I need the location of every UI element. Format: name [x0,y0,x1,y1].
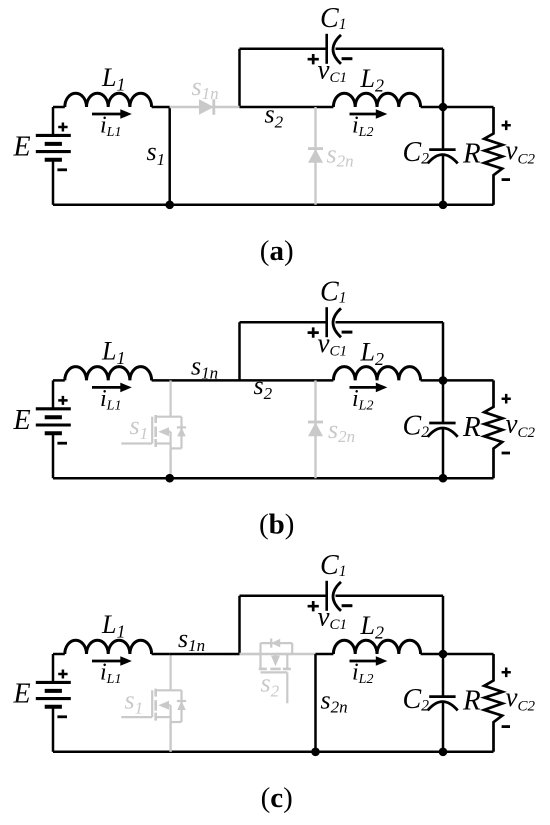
vC2 minus sign [502,452,510,455]
node junction dot output-top [439,650,448,659]
svg-text:s1: s1 [147,137,166,169]
resistor R [443,653,494,656]
circuit state (a) [13,3,536,267]
svg-text:s2: s2 [254,371,273,403]
wire C1 loop left vertical [238,322,241,380]
wire C1 top rail right [336,595,444,598]
svg-text:iL2: iL2 [352,660,373,688]
svg-text:C1: C1 [320,550,346,581]
svg-text:(c): (c) [261,782,293,814]
wire left rail bottom [52,433,55,478]
switch s2 (off, MOSFET horizontal) [240,653,316,655]
current arrow iL2 [350,386,380,389]
capacitor C2 [442,654,445,697]
node junction dot output-bottom [439,748,448,757]
wire s2n-top to L2 [316,653,334,656]
svg-text:L2: L2 [360,337,384,369]
node junction dot output-top [439,103,448,112]
svg-text:L2: L2 [360,611,384,643]
vC2 plus sign [502,121,511,131]
svg-text:L1: L1 [101,336,125,368]
C1 minus sign [342,604,353,607]
node junction dot output-bottom [439,474,448,483]
inductor L1 [53,106,65,109]
svg-text:C1: C1 [320,276,346,307]
wire bottom rail [53,477,494,480]
C1 plus sign [308,54,319,64]
battery plus sign [58,670,67,679]
capacitor C1 [325,34,328,64]
current arrow iL1 [92,660,123,663]
svg-text:L1: L1 [101,610,125,642]
wire left rail bottom [52,707,55,752]
svg-text:(a): (a) [260,235,294,267]
svg-text:C1: C1 [320,3,346,34]
switch s1n (off, diode) [170,106,240,108]
battery plus sign [58,396,67,405]
svg-text:E: E [13,405,31,436]
node junction dot output-bottom [439,201,448,210]
wire C1 loop right vertical [442,49,445,107]
wire left rail top (E to L1) [52,107,55,135]
vC2 minus sign [502,725,510,728]
svg-text:iL1: iL1 [100,386,121,414]
switch s1 (closed, conducting wire) [168,107,171,205]
wire C1 top rail right [336,48,444,51]
svg-text:s2n: s2n [327,140,354,171]
current arrow iL1 [92,113,123,116]
switch s2 (closed, conducting wire) [240,106,334,109]
C1 plus sign [308,601,319,611]
svg-text:C2: C2 [403,410,430,441]
C1 minus sign [342,57,353,60]
svg-text:vC2: vC2 [506,682,536,715]
svg-text:s2n: s2n [321,686,348,717]
switch s2n (off, diode) [314,380,316,478]
svg-text:E: E [13,132,31,163]
svg-text:iL1: iL1 [100,113,121,141]
C1 plus sign [308,327,319,337]
capacitor C2 [442,107,445,150]
svg-text:s1: s1 [125,686,144,718]
battery E [36,682,71,706]
svg-text:R: R [462,411,481,443]
wire C1 top rail left [240,595,327,598]
svg-text:R: R [462,685,481,717]
switch s2n (closed, conducting wire) [314,654,317,752]
switch s1 (off, MOSFET) [121,380,186,448]
wire C1 loop right vertical [442,322,445,380]
C1 minus sign [342,331,353,334]
resistor R [443,106,494,109]
current arrow iL1 [92,386,123,389]
wire C1 loop left vertical [238,596,241,654]
svg-text:L2: L2 [360,64,384,96]
svg-text:R: R [462,138,481,170]
inductor L2 [333,93,420,107]
switch s2 (closed, conducting wire) [240,379,334,382]
wire bottom rail [53,751,494,754]
svg-text:s1n: s1n [178,624,205,655]
svg-text:s1: s1 [130,411,149,443]
capacitor C1 [325,307,328,337]
svg-text:vC2: vC2 [506,408,536,441]
current arrow iL2 [350,660,380,663]
svg-text:s1n: s1n [191,351,218,382]
inductor L2 [333,640,420,654]
resistor R [443,379,494,382]
vC2 plus sign [502,668,511,678]
node junction dot s2n-bottom [311,748,320,757]
switch s1n (closed, conducting wire) [170,653,240,656]
svg-text:iL1: iL1 [100,660,121,688]
wire C1 loop left vertical [238,49,241,107]
wire bottom rail [53,204,494,207]
svg-text:iL2: iL2 [352,386,373,414]
wire left rail bottom [52,160,55,205]
svg-text:E: E [13,679,31,710]
switch s2n (off, diode) [314,107,316,205]
node junction dot s1-bottom [165,201,174,210]
battery E [36,135,71,159]
inductor L1 [53,379,65,382]
circuit state (c) [13,550,536,814]
svg-text:iL2: iL2 [352,113,373,141]
svg-text:L1: L1 [101,63,125,95]
node junction dot s1-bottom [165,474,174,483]
capacitor C2 [442,380,445,423]
svg-text:s2: s2 [265,100,284,132]
wire C1 top rail right [336,321,444,324]
battery plus sign [58,123,67,132]
wire C1 top rail left [240,48,327,51]
wire left rail top (E to L1) [52,654,55,682]
wire C1 loop right vertical [442,596,445,654]
inductor L2 [333,367,420,381]
inductor L1 [53,653,65,656]
capacitor C1 [325,581,328,611]
wire left rail top (E to L1) [52,380,55,408]
svg-text:s1n: s1n [192,72,219,103]
battery minus sign [57,715,67,718]
svg-text:s2n: s2n [328,415,355,446]
vC2 plus sign [502,394,511,404]
svg-text:(b): (b) [259,508,294,540]
circuit state (b) [13,276,536,540]
svg-text:C2: C2 [403,684,430,715]
switch s1n (closed, conducting wire) [170,379,240,382]
wire C1 top rail left [240,321,327,324]
battery minus sign [57,442,67,445]
node junction dot output-top [439,376,448,385]
vC2 minus sign [502,178,510,181]
switch s1 (off, MOSFET) [121,654,186,722]
battery minus sign [57,168,67,171]
battery E [36,409,71,433]
svg-text:C2: C2 [403,137,430,168]
current arrow iL2 [350,113,380,116]
svg-text:vC2: vC2 [506,135,536,168]
